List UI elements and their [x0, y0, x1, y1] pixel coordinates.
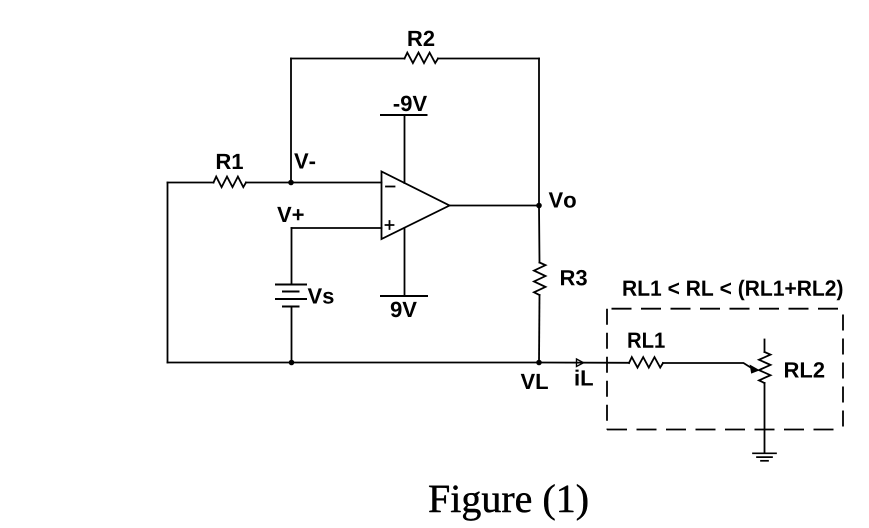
power 9V bar: [381, 295, 427, 297]
dashed enclosure box bottom edge: [607, 429, 843, 431]
ground bar 1: [753, 452, 776, 454]
label R3: [561, 270, 587, 286]
wire VL node to load section: [539, 362, 629, 364]
wire op-amp plus input: [292, 227, 382, 229]
dashed enclosure box top edge: [607, 308, 843, 310]
resistor RL1: [629, 357, 663, 368]
wire bottom rail: [168, 362, 540, 364]
label iL: [576, 370, 593, 386]
op-amp minus pin mark: [386, 186, 395, 188]
node Vo junction dot: [536, 203, 542, 209]
caption Figure (1): [429, 484, 587, 520]
wire RL2 to ground: [764, 383, 766, 453]
potentiometer RL2 top stub: [764, 340, 766, 353]
node battery bottom junction dot: [289, 360, 295, 366]
power 9V lead: [404, 228, 406, 296]
op-amp plus pin mark: [386, 221, 394, 229]
label RL2: [785, 362, 824, 377]
wire node V- up to feedback: [290, 59, 292, 183]
current arrow iL: [577, 359, 584, 367]
label Vs: [308, 288, 334, 303]
wire top feedback left segment: [291, 58, 405, 60]
node V- junction dot: [288, 180, 294, 186]
wire battery to bottom rail: [291, 307, 293, 363]
wire R3 to VL node: [538, 295, 541, 363]
label RL1 constraint title: [623, 280, 842, 301]
battery Vs plate short bottom: [283, 306, 299, 308]
potentiometer RL2 body: [759, 352, 771, 383]
wire R1 left lead: [168, 182, 214, 184]
label Vo: [549, 192, 576, 207]
label V-: [294, 153, 315, 168]
battery Vs plate short upper: [283, 291, 299, 293]
power -9V lead: [404, 115, 406, 183]
label 9V: [391, 302, 417, 318]
wire left vertical: [167, 183, 169, 363]
resistor R3: [534, 263, 546, 296]
wire top feedback right segment: [438, 58, 539, 60]
label R1: [217, 154, 243, 169]
wire op-amp output: [450, 205, 540, 207]
battery Vs plate long top: [276, 284, 306, 286]
wire Vo node down to R3: [538, 206, 541, 263]
ground bar 2: [757, 456, 772, 458]
power -9V bar: [381, 114, 427, 116]
node VL junction dot: [536, 360, 542, 366]
label VL: [521, 374, 548, 389]
wire RL1 to wiper: [663, 363, 754, 369]
wire R1 to op-amp minus input: [246, 182, 382, 184]
wiper arrow of RL2: [750, 365, 758, 373]
dashed enclosure box right edge: [842, 309, 844, 430]
wire right vertical down to Vo node: [538, 59, 540, 206]
ground bar 3: [761, 460, 768, 462]
label -9V: [394, 96, 427, 112]
label R2: [408, 31, 434, 46]
op-amp U1 triangle: [382, 172, 450, 240]
resistor R2: [405, 53, 439, 64]
resistor R1: [214, 177, 247, 188]
dashed enclosure box left edge: [606, 309, 608, 430]
battery Vs plate long lower: [276, 298, 306, 300]
wire V+ down to battery: [291, 228, 293, 285]
label V+: [277, 207, 303, 222]
label RL1: [628, 333, 664, 348]
